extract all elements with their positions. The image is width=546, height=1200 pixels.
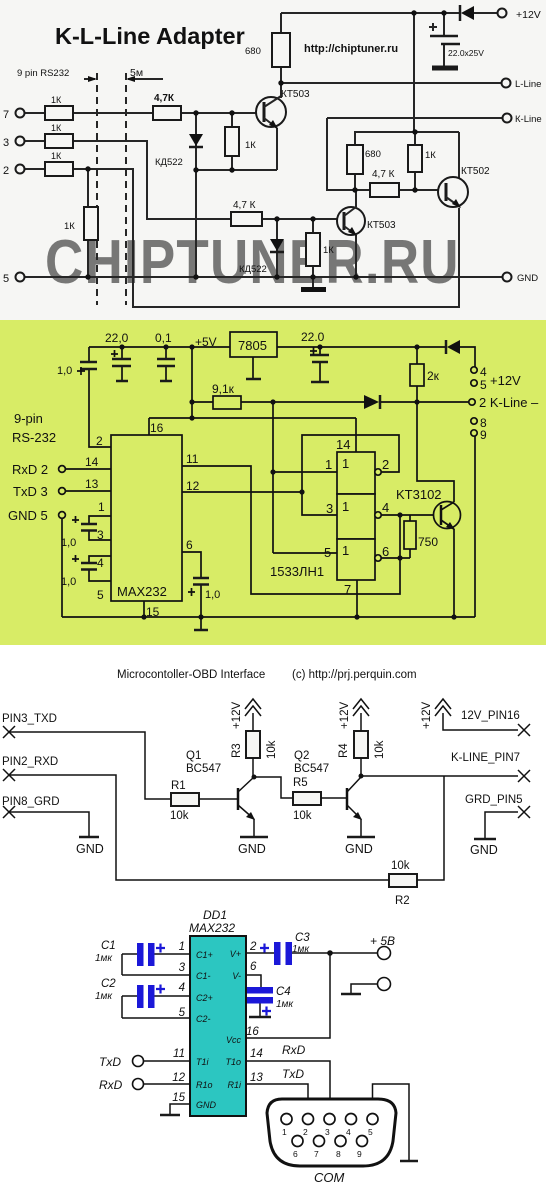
svg-text:1: 1 [282,1127,287,1137]
svg-text:C1+: C1+ [196,950,213,960]
resistor 1K pin2 [45,151,73,176]
svg-text:9,1к: 9,1к [212,382,235,396]
terminal +12V [498,9,541,22]
svg-text:BC547: BC547 [186,763,221,775]
svg-text:1К: 1К [51,95,62,105]
svg-text:680: 680 [245,46,261,57]
svg-text:GND 5: GND 5 [8,508,48,523]
svg-text:GRD_PIN5: GRD_PIN5 [465,794,523,806]
svg-text:C4: C4 [276,986,291,998]
terminal X PIN3_TXD [2,713,57,738]
svg-text:R2: R2 [395,895,410,907]
terminal chassis [341,978,391,995]
node dots section2 [119,344,456,619]
svg-text:2к: 2к [427,369,440,383]
svg-text:C3: C3 [295,932,310,944]
svg-text:КТ502: КТ502 [461,166,490,177]
gate pin labels [324,437,389,597]
dimension arrows [84,76,163,82]
svg-text:(c) http://prj.perquin.com: (c) http://prj.perquin.com [292,669,417,681]
K-line to gate inputs vertical [272,402,274,553]
pin15 stub [144,601,160,619]
pin2 wire [96,434,103,448]
K-Line signal row [192,401,469,403]
node dots section3 [252,774,364,780]
pin14 wire [66,455,111,469]
terminal pin5 [3,273,25,286]
svg-text:6: 6 [186,538,193,552]
svg-text:Microcontoller-OBD Interface: Microcontoller-OBD Interface [117,669,265,681]
pin13 TxD wire to DB9 pin2 [246,1067,308,1113]
resistor 2k [410,347,440,402]
cable length dashed line B [125,73,127,305]
svg-text:15: 15 [172,1092,185,1104]
svg-text:V+: V+ [230,949,241,959]
gate out6 wire [381,557,410,559]
svg-text:16: 16 [246,1026,259,1038]
pin3 wire [122,974,190,976]
gate3 input wire [273,552,337,554]
svg-text:4: 4 [346,1127,351,1137]
DB9 pin5 ground route [373,1084,419,1161]
svg-text:K-LINE_PIN7: K-LINE_PIN7 [451,752,520,764]
svg-text:RS-232: RS-232 [12,430,56,445]
capacitor 22.0x25V [429,23,484,58]
resistor 680#1 vertical [245,33,290,67]
svg-text:C1: C1 [101,940,116,952]
terminal +5V [370,934,395,960]
diode at +12V input [460,5,497,21]
svg-text:C2-: C2- [196,1014,211,1024]
capacitor C4 [246,975,294,1017]
cable length dashed line A [96,73,98,305]
svg-text:12V_PIN16: 12V_PIN16 [461,710,520,722]
capacitor 22,0 [105,331,131,381]
svg-text:1К: 1К [323,245,334,256]
resistor 1K pin3 [45,123,73,148]
svg-text:+12V: +12V [339,701,351,729]
svg-text:1: 1 [98,500,105,514]
IC MAX232 [111,435,182,601]
wire PIN3_TXD to R1 [9,732,171,799]
svg-text:1,0: 1,0 [61,576,76,588]
wire 680#2 vertical [354,132,356,190]
svg-text:1мк: 1мк [292,944,310,955]
resistor 1K#6 vertical [225,127,256,156]
svg-text:11: 11 [186,452,199,466]
resistor 1K#4 vertical [64,207,98,240]
svg-text:5: 5 [3,273,9,285]
svg-text:7805: 7805 [238,338,267,353]
resistor 4.7K#3 on rail [370,169,399,197]
diode KD522#1 [155,134,203,168]
terminal 2 K-Line [469,395,539,410]
terminal GND [503,273,539,285]
svg-text:750: 750 [418,535,438,549]
resistor 750 [404,515,438,558]
svg-text:1К: 1К [64,221,75,232]
svg-text:MAX232: MAX232 [189,921,235,935]
svg-text:1К: 1К [51,123,62,133]
svg-text:GND: GND [470,843,498,857]
svg-text:12: 12 [172,1072,185,1084]
pin numbers left [172,941,185,1104]
svg-text:7: 7 [3,109,9,121]
svg-text:1: 1 [342,456,349,471]
pin15 ground [160,1104,190,1115]
terminal 5 [471,378,487,392]
svg-text:1,0: 1,0 [205,589,220,601]
wire KT502 collector [447,132,459,187]
terminal X K-LINE_PIN7 [451,752,530,782]
MAX232 pin16 stub [149,418,164,435]
svg-text:2 K-Line –: 2 K-Line – [479,395,539,410]
svg-text:PIN2_RXD: PIN2_RXD [2,756,58,768]
svg-text:9: 9 [357,1149,362,1159]
transistor KT503#2 [337,190,396,277]
resistor R1 [170,780,199,822]
svg-text:MAX232: MAX232 [117,584,167,599]
resistor 1K pin7 [45,95,73,120]
svg-text:КД522: КД522 [239,264,267,275]
wire 680#1 vertical [280,13,282,98]
wire pin7 row [25,112,264,114]
svg-text:4,7 К: 4,7 К [372,169,395,180]
svg-text:5: 5 [179,1007,186,1019]
capacitor C2 [95,978,190,1018]
svg-text:КТ503: КТ503 [281,89,310,100]
feedback wire out2 to in3 [302,435,399,515]
wire Q1 collector to R5 [254,777,293,798]
svg-text:9: 9 [480,428,487,442]
resistor 1K#5 vertical [306,233,334,266]
capacitor 1.0 left [57,347,111,447]
MAX232 pin11 route [182,452,400,594]
svg-text:http://chiptuner.ru: http://chiptuner.ru [304,43,398,55]
svg-text:R1i: R1i [227,1080,242,1090]
terminal X GRD_PIN5 [465,794,530,818]
+5V rail [89,347,475,367]
svg-text:1К: 1К [51,151,62,161]
svg-text:COM: COM [314,1170,345,1185]
svg-text:10k: 10k [391,860,410,872]
transistor KT503#1 [256,89,310,170]
svg-text:1мк: 1мк [276,999,294,1010]
capacitor C3 [246,932,377,965]
svg-text:3: 3 [97,528,104,542]
terminal 4 [471,365,487,379]
MAX232 pin12 wire [182,479,302,493]
ground PIN8 [76,837,104,856]
wire +12V vertical to rail [413,13,415,132]
terminal GND 5 [8,508,65,523]
svg-text:КТ503: КТ503 [367,220,396,231]
svg-text:12: 12 [186,479,200,493]
svg-text:+ 5В: + 5В [370,934,395,948]
wire R1 to Q1 base [199,798,238,800]
svg-text:RxD: RxD [99,1078,123,1092]
capacitor 0,1 [155,331,175,381]
svg-text:+12V: +12V [421,701,433,729]
svg-text:4: 4 [480,365,487,379]
svg-text:PIN3_TXD: PIN3_TXD [2,713,57,725]
svg-text:C1-: C1- [196,971,211,981]
terminal TxD 3 [13,484,65,499]
resistor R4 with +12V arrow [338,699,386,777]
svg-text:5: 5 [368,1127,373,1137]
svg-text:1: 1 [179,941,185,953]
ground Q2 [345,837,375,856]
svg-text:1: 1 [342,499,349,514]
svg-text:+12V: +12V [516,9,541,21]
svg-text:K-L-Line Adapter: K-L-Line Adapter [55,23,245,49]
svg-text:C2+: C2+ [196,993,213,1003]
pin6 wire and capacitor 1,0 [182,538,220,617]
terminal pin7 [3,109,25,122]
svg-text:7: 7 [314,1149,319,1159]
pin5 wire [122,1017,190,1019]
svg-text:4: 4 [97,556,104,570]
ground GRD_PIN5 [470,839,498,857]
terminal RxD 2 [12,462,65,477]
svg-text:TxD: TxD [99,1055,121,1069]
svg-text:5: 5 [324,545,331,560]
svg-text:Vcc: Vcc [226,1035,242,1045]
svg-text:4: 4 [179,982,185,994]
transistor Q1 [186,750,255,836]
svg-text:9-pin: 9-pin [14,411,43,426]
svg-text:KT3102: KT3102 [396,487,442,502]
resistor R3 with +12V arrow [231,699,278,777]
svg-text:TxD 3: TxD 3 [13,484,48,499]
svg-text:1К: 1К [245,140,256,151]
wire pin2 row down and to KT502 emitter [25,169,459,307]
svg-text:К-Line: К-Line [515,114,542,125]
pin numbers right [246,941,263,1084]
node dot +5V [327,950,333,956]
IC 1533LN1 gate2 [337,494,381,539]
svg-text:1,0: 1,0 [57,365,72,377]
ground bar under 1K#5 [301,287,326,292]
wire GND row [25,276,503,278]
svg-text:4,7К: 4,7К [154,93,175,104]
ground Q1 [238,837,268,856]
svg-text:6: 6 [250,961,257,973]
svg-text:10k: 10k [266,740,278,759]
svg-text:GND: GND [238,842,266,856]
terminal X PIN8_GRD [2,796,60,818]
svg-text:3: 3 [3,137,9,149]
svg-text:GND: GND [517,273,538,284]
diode KD522#2 [239,239,284,275]
pin14 RxD wire to DB9 pin3 [246,1043,330,1113]
svg-text:1533ЛН1: 1533ЛН1 [270,564,324,579]
DB9 connector COM [267,1099,396,1185]
resistor R2 [389,860,417,907]
transistor KT3102 [396,402,461,617]
label 9-pin RS-232 [12,411,56,445]
svg-text:10k: 10k [170,810,189,822]
wire L-Line row [281,82,501,84]
svg-text:10k: 10k [293,810,312,822]
gate1 input wire [273,471,337,473]
resistor 680#2 vertical [347,145,381,174]
svg-text:DD1: DD1 [203,908,227,922]
svg-text:+12V: +12V [231,701,243,729]
svg-text:R1: R1 [171,780,186,792]
svg-text:+5V: +5V [195,335,217,349]
GND5 down wire [61,518,63,617]
svg-text:22.0: 22.0 [301,330,325,344]
svg-text:5: 5 [97,588,104,602]
svg-text:13: 13 [250,1072,263,1084]
svg-text:RxD: RxD [282,1043,306,1057]
svg-text:4,7 К: 4,7 К [233,200,256,211]
section2 background [0,320,546,645]
terminal pin2 [3,165,25,178]
svg-text:1,0: 1,0 [61,537,76,549]
svg-text:2: 2 [303,1127,308,1137]
capacitor 1,0 pins 4-5 [61,555,111,602]
svg-text:0,1: 0,1 [155,331,172,345]
svg-text:PIN8_GRD: PIN8_GRD [2,796,60,808]
IC DD1 MAX232 [189,908,246,1116]
svg-text:680: 680 [365,149,381,160]
+5V distribution row 418 [149,417,356,419]
terminal TxD [99,1055,190,1069]
node dots section1 [85,10,446,279]
wire PIN2_RXD to R2 row [9,775,389,880]
wire K-Line to base rail [327,118,446,190]
terminal K-Line [503,114,542,126]
terminal pin3 [3,137,25,150]
terminal 9 [471,428,487,442]
svg-text:22.0х25V: 22.0х25V [448,48,484,58]
wire collector rail 132 [354,131,459,133]
svg-text:GND: GND [345,842,373,856]
wire capacitor 22.0x25V stubs [443,13,445,67]
+5V feed vertical [191,347,193,418]
capacitor C1 [95,940,190,975]
wire 1K#5 vertical with ground stub [312,219,314,288]
svg-text:GND: GND [76,842,104,856]
IC 1533LN1 gate3 [337,539,381,580]
svg-text:16: 16 [150,421,164,435]
wire PIN8_GRD to ground [9,812,89,836]
ground rail bottom [62,616,475,618]
svg-text:13: 13 [85,477,99,491]
wire K-LINE row [361,775,518,777]
svg-text:R1o: R1o [196,1080,213,1090]
Vcc wire to pin16 [246,953,330,1038]
terminal X PIN2_RXD [2,756,58,781]
svg-text:11: 11 [173,1048,185,1060]
svg-text:T1i: T1i [196,1057,210,1067]
resistor R5 [293,777,321,822]
svg-text:1мк: 1мк [95,991,113,1002]
diode on K-line row [364,395,380,409]
capacitor 1,0 pins 1-3 [61,500,111,549]
svg-text:14: 14 [336,437,350,452]
diode on rail [446,340,460,354]
+12V arrow PIN16 [421,699,518,730]
svg-text:1К: 1К [425,150,436,161]
wire diode KD522#2 vertical [276,219,278,277]
transistor Q2 [294,750,362,836]
svg-text:BC547: BC547 [294,763,329,775]
wire pin3 row to 4.7K#2 [25,141,231,219]
section1 background [0,0,546,320]
ground symbol below rail [194,617,208,630]
svg-text:V-: V- [232,971,241,981]
svg-text:Q2: Q2 [294,750,309,762]
svg-text:GND: GND [196,1100,217,1110]
resistor 4.7K#1 [153,93,181,120]
wire pin2 branch through 1K to GND row [87,169,89,277]
IC 1533LN1 gate1 [337,452,381,494]
svg-text:14: 14 [85,455,99,469]
KT3102 base wire [381,514,441,516]
svg-text:3: 3 [326,501,333,516]
wire 1K#7 vertical [414,132,416,190]
svg-text:8: 8 [336,1149,341,1159]
wire R2 up to K-line [417,776,444,880]
svg-text:15: 15 [146,605,160,619]
wire emitter row 170 [196,169,277,171]
svg-text:R5: R5 [293,777,308,789]
svg-text:1мк: 1мк [95,953,113,964]
svg-text:22,0: 22,0 [105,331,129,345]
svg-text:C2: C2 [101,978,116,990]
1533 pin14 stub [355,418,357,452]
svg-text:5: 5 [480,378,487,392]
resistor 9,1k [212,382,241,409]
svg-text:+12V: +12V [490,373,521,388]
svg-text:Q1: Q1 [186,750,201,762]
svg-text:2: 2 [249,941,257,953]
svg-text:CHIPTUNER.RU: CHIPTUNER.RU [45,228,460,297]
regulator 7805 [230,332,277,379]
svg-text:КД522: КД522 [155,157,183,168]
terminal L-Line [502,79,542,91]
wire top +12V rail [281,12,460,14]
svg-text:2: 2 [3,165,9,177]
transistor KT502 [438,166,490,208]
svg-text:1: 1 [342,543,349,558]
terminal 8 [471,416,487,430]
svg-text:14: 14 [250,1048,263,1060]
svg-text:R4: R4 [338,743,350,758]
terminal X 12V_PIN16 [461,710,530,736]
svg-text:7: 7 [344,582,351,597]
svg-text:L-Line: L-Line [515,79,541,90]
wire 1K#6 vertical [231,113,233,170]
svg-text:3: 3 [179,962,186,974]
terminal 9 ground wire [474,436,476,617]
svg-text:9 pin RS232: 9 pin RS232 [17,68,69,79]
svg-text:10k: 10k [374,740,386,759]
svg-text:1: 1 [325,457,332,472]
svg-text:6: 6 [382,544,389,559]
pin13 wire [66,477,111,491]
wire diode KD522#1 vertical [195,113,197,277]
terminal RxD [99,1078,190,1092]
wire GRD_PIN5 to ground [485,812,518,838]
pin7 stub [356,580,358,617]
svg-text:2: 2 [382,457,389,472]
svg-text:2: 2 [96,434,103,448]
wire K-Line row [327,117,503,119]
